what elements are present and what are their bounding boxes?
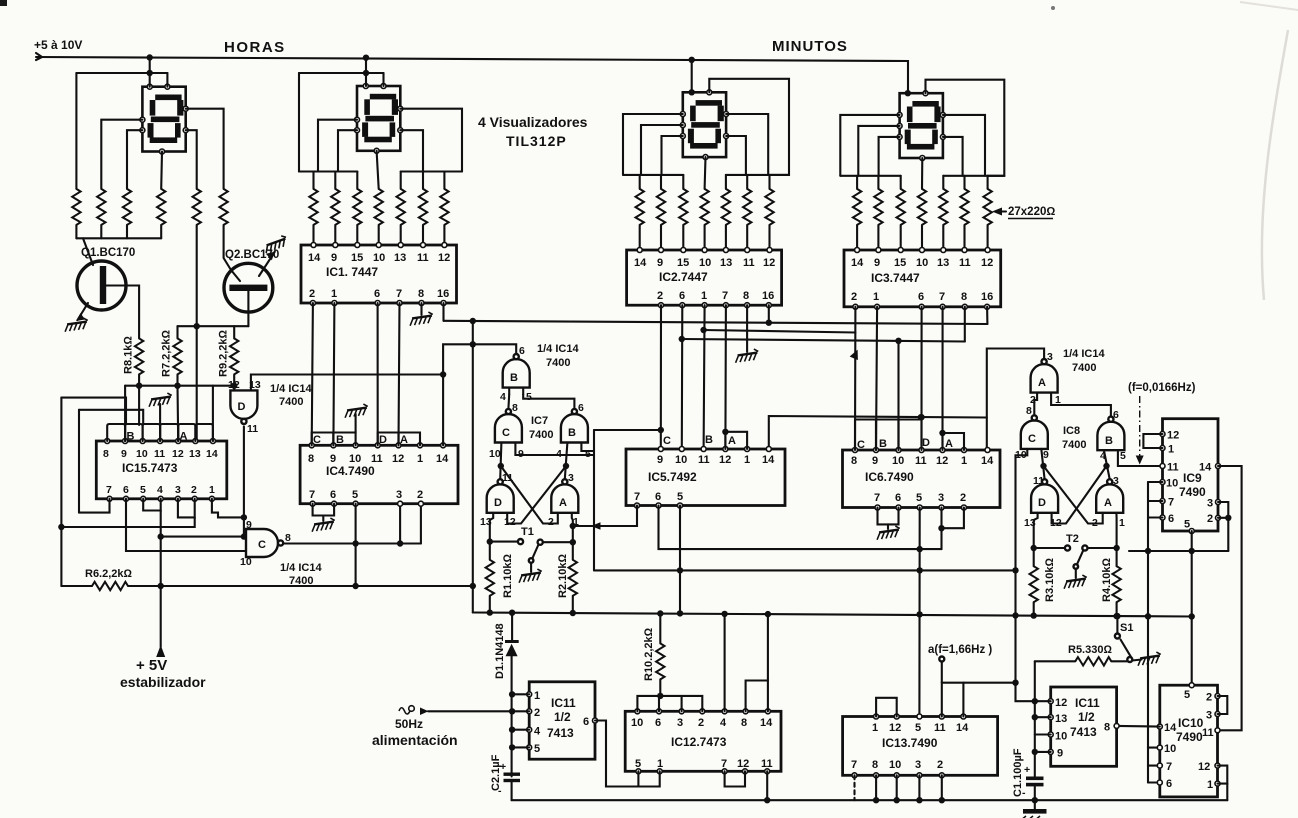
wire IC2 pin16 drop (768, 305, 770, 323)
wire IC3.1 to IC6.9 (876, 307, 877, 450)
svg-text:2: 2 (309, 288, 315, 300)
svg-text:3: 3 (1207, 498, 1213, 510)
svg-text:14: 14 (760, 717, 773, 729)
svg-text:8: 8 (741, 717, 747, 729)
wire B1 input stubs (509, 388, 523, 395)
svg-text:16: 16 (981, 291, 993, 303)
wire reset line to IC5.9 / IC5.14 / IC6.14 (594, 349, 1044, 451)
svg-text:6: 6 (330, 489, 336, 501)
IC6 7490 box (843, 448, 1001, 511)
wire +5V rail (R6 to IC area) (128, 583, 476, 589)
ground below Q1 emitter (64, 318, 89, 332)
svg-text:1: 1 (209, 484, 215, 496)
svg-text:+ 5V: + 5V (136, 657, 167, 674)
wire riser to IC15 pin 12 (176, 386, 179, 441)
svg-text:8: 8 (308, 453, 314, 465)
wire gate D output down to gate C input 9 (244, 427, 246, 537)
wire C7 output bubble to B1 input 4 (507, 395, 510, 409)
label (f=0,0166Hz) with pointer (1128, 382, 1196, 465)
svg-text:9: 9 (331, 252, 337, 264)
wire DIS3 top-right wrap to 7th resistor (709, 79, 789, 175)
svg-text:13: 13 (394, 252, 406, 264)
svg-text:5: 5 (352, 489, 358, 501)
IC2 7447 box (627, 248, 782, 308)
wire IC15 pins 5-4 bracket (143, 499, 161, 511)
svg-text:7: 7 (1168, 497, 1174, 509)
svg-text:A: A (400, 434, 408, 446)
svg-text:3: 3 (1113, 475, 1119, 487)
wire DIS3 bottom pin (704, 157, 707, 189)
svg-text:1/4 IC14: 1/4 IC14 (270, 383, 312, 395)
svg-text:IC15.7473: IC15.7473 (122, 461, 178, 475)
svg-text:7413: 7413 (547, 726, 574, 740)
svg-text:11: 11 (698, 454, 710, 466)
svg-text:8: 8 (1104, 722, 1110, 734)
wire main horizontal bus (473, 609, 1195, 619)
wire IC2 pin8 to ground (746, 305, 748, 352)
wire gate A2 input1 to B8 top (1051, 393, 1111, 419)
svg-text:7: 7 (939, 291, 945, 303)
diode D1 1N4148 (494, 613, 519, 777)
nand gate A of IC7 latch (548, 472, 579, 528)
svg-text:14: 14 (206, 448, 218, 460)
svg-text:1: 1 (872, 722, 878, 734)
svg-text:12: 12 (504, 516, 516, 528)
IC11a 1/2 7413 box (left) (527, 682, 598, 759)
wire segment line down to Q2 collector (224, 225, 231, 270)
ground S1 (1137, 652, 1162, 666)
svg-text:T1: T1 (521, 526, 534, 538)
svg-text:D: D (922, 437, 930, 449)
wire B2 input 5 to feedback node (581, 443, 594, 452)
svg-text:16: 16 (437, 288, 449, 300)
IC11b 1/2 7413 box (right) (1048, 687, 1119, 766)
svg-text:R8.1kΩ: R8.1kΩ (123, 336, 135, 374)
svg-text:4: 4 (534, 726, 541, 738)
svg-text:6: 6 (123, 484, 129, 496)
svg-text:11: 11 (915, 455, 927, 467)
svg-text:50Hz: 50Hz (395, 717, 423, 731)
svg-text:10: 10 (1164, 743, 1176, 755)
nand gate A top (1/4 IC14 right) (1030, 351, 1061, 406)
svg-text:1/4 IC14: 1/4 IC14 (280, 562, 322, 574)
wire IC12 pin 11 to bottom bus (766, 771, 768, 800)
wire C8 input9 down to D8 output (1040, 449, 1046, 479)
svg-text:12: 12 (392, 453, 404, 465)
wire bus B (IC2.1 tap going right) (700, 327, 855, 333)
svg-text:8: 8 (743, 290, 749, 302)
IC1 7447 box (301, 243, 457, 306)
svg-text:8: 8 (418, 288, 424, 300)
svg-text:14: 14 (634, 257, 647, 269)
nand gate C of IC7 (489, 402, 524, 460)
svg-text:IC7: IC7 (531, 415, 548, 427)
svg-text:10: 10 (675, 454, 687, 466)
svg-text:C: C (502, 427, 510, 439)
svg-text:IC2.7447: IC2.7447 (659, 270, 708, 284)
svg-text:8: 8 (512, 402, 518, 414)
wire B2 input4 down to gate A output (563, 443, 569, 480)
svg-text:A: A (559, 497, 567, 509)
wire IC3 pin16 drop (986, 307, 988, 324)
svg-text:C: C (313, 434, 321, 446)
svg-text:12: 12 (737, 758, 749, 770)
svg-text:7400: 7400 (546, 357, 570, 369)
svg-text:Q1.BC170: Q1.BC170 (81, 247, 135, 259)
wire IC2.6 to IC5.10 (681, 305, 684, 449)
nand gate D of IC8 latch (1024, 475, 1062, 529)
ground above IC15 pin 11 (148, 393, 173, 441)
svg-text:B: B (568, 427, 576, 439)
svg-text:R6.2,2kΩ: R6.2,2kΩ (85, 568, 133, 580)
svg-text:IC8: IC8 (1063, 425, 1080, 437)
ground above IC4 pin 10 (344, 404, 369, 433)
power rail +5 a 10V top wire (36, 53, 908, 93)
svg-text:R2.10kΩ: R2.10kΩ (557, 554, 569, 598)
svg-text:2: 2 (1206, 692, 1212, 704)
wire B8 input4 down to A8 output (1103, 450, 1109, 479)
wire IC3 pin8 drop to bus C (964, 307, 966, 342)
nand gate A of IC8 latch (1092, 475, 1125, 529)
svg-text:2: 2 (960, 492, 966, 504)
wire DIS4 right fan (943, 115, 1004, 189)
svg-text:15: 15 (894, 257, 906, 269)
svg-text:a(f=1,66Hz ): a(f=1,66Hz ) (928, 644, 992, 656)
svg-text:6: 6 (895, 492, 901, 504)
IC12 7473 box (625, 709, 781, 774)
svg-text:B: B (879, 438, 887, 450)
wire IC15 pin 7 to inner loop (79, 499, 110, 513)
wire B8 input5 to IC9 pin 11 (1118, 450, 1163, 466)
svg-text:2: 2 (1207, 513, 1213, 525)
svg-text:C: C (857, 439, 865, 451)
svg-text:7: 7 (1166, 761, 1172, 773)
wire IC13 pins 11-14 bracket to IC11b node (942, 683, 1016, 717)
svg-text:9: 9 (874, 257, 880, 269)
svg-text:6: 6 (519, 345, 525, 357)
svg-text:6: 6 (1168, 513, 1174, 525)
wire IC5 pin 7 to latch output (arrow) (570, 506, 637, 530)
svg-text:6: 6 (578, 402, 584, 414)
svg-text:14: 14 (436, 453, 449, 465)
svg-text:4: 4 (157, 484, 163, 496)
svg-text:12: 12 (228, 379, 240, 391)
svg-text:9: 9 (657, 257, 663, 269)
svg-text:R3.10kΩ: R3.10kΩ (1044, 558, 1056, 602)
svg-text:15: 15 (351, 252, 363, 264)
wire IC12 clock input bracket (pins 10-6-3-2) (637, 693, 702, 712)
svg-text:1: 1 (657, 758, 663, 770)
svg-text:R10.2,2kΩ: R10.2,2kΩ (643, 627, 655, 681)
svg-text:7413: 7413 (1070, 725, 1097, 739)
svg-text:8: 8 (1026, 405, 1032, 417)
resistor R6.2,2k (61, 568, 132, 590)
svg-text:3: 3 (938, 492, 944, 504)
svg-text:13: 13 (720, 257, 732, 269)
svg-text:2: 2 (698, 717, 704, 729)
svg-text:8: 8 (851, 455, 857, 467)
wire IC11b input stubs to R5 node (1035, 717, 1051, 752)
svg-text:IC13.7490: IC13.7490 (882, 736, 938, 750)
wire DIS2 left fan (299, 120, 357, 189)
svg-text:1: 1 (744, 454, 750, 466)
wire IC10 pins 12-1 jumper to bottom bus (1218, 766, 1228, 801)
svg-text:1: 1 (873, 291, 879, 303)
svg-text:estabilizador: estabilizador (120, 674, 206, 690)
wire IC6 pins 7-6 bracket to ground (876, 508, 901, 540)
svg-text:10: 10 (1166, 478, 1178, 490)
wire IC4 pin 5 to +5V rail (355, 504, 357, 586)
svg-text:11: 11 (1202, 727, 1214, 739)
svg-text:B: B (336, 434, 344, 446)
svg-text:14: 14 (762, 454, 775, 466)
resistor DIS4 segment resistors (7) (853, 189, 992, 225)
resistor R10.2,2k (643, 614, 665, 696)
svg-text:1: 1 (1207, 779, 1213, 791)
svg-text:+: + (1024, 764, 1030, 776)
node a (f=1,66Hz) (928, 644, 992, 683)
wire IC5 pin 5 down to main bus (677, 506, 683, 617)
svg-text:5: 5 (1120, 450, 1126, 462)
wire IC11a pin 6 to IC12 clock bracket (595, 721, 638, 787)
svg-text:10: 10 (240, 556, 252, 568)
wire IC1 pin16 down to 16-bus (442, 303, 444, 321)
svg-text:16: 16 (762, 290, 774, 302)
svg-text:R4.10kΩ: R4.10kΩ (1101, 558, 1113, 602)
svg-text:B: B (510, 372, 518, 384)
wire Q1 base to R8 (106, 286, 139, 339)
capacitor C1 100uF (1012, 748, 1044, 803)
wire IC15 pins 3-2 bracket (178, 499, 195, 518)
wire IC9 pin 14 to IC10 pin 11 (cascade) (1218, 466, 1242, 730)
resistor DIS1 segment resistors (6 of 27x220) (72, 189, 228, 225)
svg-text:1: 1 (331, 288, 337, 300)
switch S1 (1115, 616, 1142, 662)
resistor DIS2 segment resistors (7) (309, 189, 448, 225)
svg-text:9: 9 (657, 454, 663, 466)
svg-text:1/4 IC14: 1/4 IC14 (537, 343, 579, 355)
ground T2 (1063, 575, 1088, 589)
ground T1 (518, 569, 543, 583)
IC10 7490 box (1157, 683, 1220, 797)
svg-text:B: B (127, 431, 135, 443)
wire feedback loop outer (IC15.2 to pin 8) (58, 398, 126, 586)
wire IC4 pins 7-6 bracket to ground (311, 504, 336, 532)
svg-text:6: 6 (374, 288, 380, 300)
svg-text:9: 9 (1043, 449, 1049, 461)
svg-text:11: 11 (761, 758, 773, 770)
svg-text:C: C (258, 539, 266, 551)
wire DIS1 bottom pin (160, 152, 163, 189)
svg-text:T2: T2 (1066, 533, 1079, 545)
wire DIS4 resistor bottoms to IC3 pins (857, 225, 988, 250)
svg-text:9: 9 (246, 519, 252, 531)
nand gate D (1/4 IC14) below R9 (228, 379, 261, 435)
wire B1 input 5 to B2 output (523, 395, 574, 409)
svg-text:7490: 7490 (1179, 485, 1206, 499)
svg-text:3: 3 (677, 717, 683, 729)
svg-text:14: 14 (956, 722, 969, 734)
resistor R8.1k (135, 338, 143, 374)
svg-text:9: 9 (1057, 748, 1063, 760)
ground below C1 (1023, 800, 1047, 818)
svg-text:5: 5 (1184, 519, 1190, 531)
wire IC15 pin 1 to gate D output node (212, 499, 247, 521)
IC9 7490 box (1160, 419, 1221, 534)
resistor R7.2,2k (173, 338, 181, 374)
svg-text:10: 10 (1055, 731, 1067, 743)
value label 27x220 ohm with arrow (992, 206, 1055, 219)
svg-text:-: - (498, 785, 502, 797)
wire IC3.6 to IC6.11 (918, 307, 924, 450)
transistor Q1 BC170 (76, 238, 126, 321)
wire latch cross diagonal to gate D8 pin 12 (1052, 466, 1107, 524)
wire +5V feed (IC15 pin 4 down) (158, 511, 164, 648)
svg-text:3: 3 (175, 484, 181, 496)
wire gate A8.1 down to R4 with branch to T2 (1088, 513, 1120, 566)
wire DIS3 resistor bottoms to IC2 pins (640, 225, 770, 250)
display DIS2 (hours units) (355, 84, 403, 154)
wire 16-pin bus (IC1.16 to IC2.16 to IC3.16) (444, 318, 988, 326)
svg-text:1/2: 1/2 (554, 710, 571, 724)
svg-text:2: 2 (548, 516, 554, 528)
ground at Q2 emitter (262, 234, 290, 253)
wire R7 bottom to IC15 top bus (176, 374, 178, 385)
wire feedback vertical to lower bus (593, 430, 595, 570)
IC5 7492 box (626, 447, 785, 509)
wire R9 bottom to gate D input 12 (233, 374, 235, 390)
svg-text:1/2: 1/2 (1078, 710, 1095, 724)
wire latch cross diagonal to gate D pin 12 (507, 466, 566, 524)
svg-text:5: 5 (916, 492, 922, 504)
svg-text:6: 6 (583, 716, 589, 728)
svg-text:3: 3 (1047, 351, 1053, 363)
svg-text:5: 5 (915, 722, 921, 734)
resistor DIS3 segment resistors (7) (636, 189, 774, 225)
wire R8 bottom to IC15 top bus (138, 374, 140, 385)
wire IC8-C10 vertical lower part to IC11b pin 12 (1012, 570, 1050, 701)
label 1/4 IC14 7400 (gate D) (270, 383, 312, 408)
nand gate B1 (1/4 IC14 above IC7) (500, 345, 532, 403)
svg-text:12: 12 (719, 454, 731, 466)
svg-text:8: 8 (285, 532, 291, 544)
IC15 7473 box (96, 439, 227, 502)
wire IC1.2 to IC4.8 (312, 303, 313, 445)
svg-text:10: 10 (489, 448, 501, 460)
wire riser to IC15 pin 9 (124, 386, 126, 441)
svg-text:14: 14 (851, 257, 864, 269)
wire DIS4 bottom pin (921, 158, 923, 189)
wire IC2.1 to IC5.11 (704, 305, 705, 449)
svg-text:13: 13 (937, 257, 949, 269)
svg-text:3: 3 (1206, 710, 1212, 722)
svg-text:2: 2 (417, 489, 423, 501)
svg-text:9: 9 (121, 448, 127, 460)
svg-text:IC3.7447: IC3.7447 (871, 271, 920, 285)
wire IC12 pins 5-1 jumper (638, 771, 659, 786)
wire IC4 pin 14 riser to B1 output (443, 344, 516, 445)
label IC7 7400 (529, 415, 553, 441)
svg-text:11: 11 (934, 722, 946, 734)
svg-text:+5 à 10V: +5 à 10V (34, 38, 82, 52)
svg-text:10: 10 (631, 717, 643, 729)
wire IC12 pin 4 riser to main bus (724, 614, 726, 711)
wire DIS4 left fan (840, 115, 900, 189)
wire IC5 pin 6 bus to IC6 reset pins (659, 506, 964, 553)
svg-text:2: 2 (937, 759, 943, 771)
svg-text:11: 11 (959, 257, 971, 269)
wire bottom bus (512, 797, 1228, 803)
svg-text:D: D (494, 497, 502, 509)
svg-text:R5.330Ω: R5.330Ω (1068, 644, 1112, 656)
wire DIS4 top-right wrap to 7th resistor (926, 80, 1005, 176)
switch T2 (1065, 533, 1088, 578)
svg-text:5: 5 (1184, 689, 1190, 701)
resistor R1.10k (486, 554, 514, 614)
wire IC15 pin 4 tap to gate C input 9 (161, 533, 247, 539)
node 50Hz input with source symbol (372, 706, 512, 748)
svg-text:6: 6 (679, 290, 685, 302)
svg-text:11: 11 (247, 423, 258, 435)
wire C7 input10 down to gate D output (498, 443, 504, 480)
label IC8 7400 (1062, 425, 1086, 451)
wire gate A.1 down to R2 with branch to T1 (543, 513, 576, 560)
wire latch cross diagonal to gate A pin 2 (501, 466, 558, 524)
wire vertical from 16-bus down to main bus (472, 321, 474, 613)
label 4 Visualizadores TIL312P (478, 114, 588, 149)
svg-text:R9.2,2kΩ: R9.2,2kΩ (218, 329, 230, 377)
svg-text:13: 13 (189, 448, 201, 460)
svg-text:10: 10 (916, 257, 928, 269)
svg-text:A: A (1104, 497, 1112, 509)
display DIS4 (minutes units) (897, 90, 945, 161)
wire gate D8.13 down to R3 with branch to T2 (1031, 513, 1065, 566)
svg-text:27x220Ω: 27x220Ω (1008, 206, 1055, 218)
wire DIS1 resistor bottoms to Q1 collector bus (76, 225, 161, 238)
svg-text:5: 5 (534, 743, 540, 755)
wire IC3.7 to IC6.12 (941, 307, 943, 450)
svg-text:12: 12 (1055, 697, 1067, 709)
svg-text:1: 1 (701, 290, 707, 302)
svg-text:3: 3 (396, 489, 402, 501)
svg-text:8: 8 (872, 759, 878, 771)
wire Q2 base down to bracket (247, 291, 249, 326)
svg-text:6: 6 (655, 491, 661, 503)
wire DIS2 bottom pin (377, 151, 379, 189)
svg-text:7400: 7400 (1072, 362, 1096, 374)
svg-text:5: 5 (140, 484, 146, 496)
wire segment-e line down to IC15 pin 13 (194, 225, 200, 441)
svg-text:alimentación: alimentación (372, 732, 458, 748)
wire feedback loop inner (IC15.7 to pin 10) (79, 410, 143, 513)
wire IC1 pin8 to ground (420, 303, 422, 315)
svg-text:11: 11 (417, 252, 429, 264)
wire IC3.2 to IC6.8 with direction arrow (850, 307, 862, 450)
svg-text:1: 1 (534, 690, 540, 702)
svg-text:IC5.7492: IC5.7492 (648, 470, 697, 484)
wire gate A2 input2 down to C8 output (1026, 393, 1037, 418)
svg-text:-: - (1022, 787, 1026, 799)
svg-text:A: A (945, 438, 953, 450)
wire IC1.7 to IC4.12 (399, 303, 400, 445)
label 1/4 IC14 7400 (gate C) (280, 562, 322, 587)
brackets and input letters above IC6 (855, 420, 964, 452)
svg-text:7: 7 (309, 489, 315, 501)
svg-text:1: 1 (417, 453, 423, 465)
wire IC9 pin 5 down to IC10 pin 5 (1189, 531, 1195, 685)
svg-text:8: 8 (103, 448, 109, 460)
svg-text:12: 12 (981, 257, 993, 269)
